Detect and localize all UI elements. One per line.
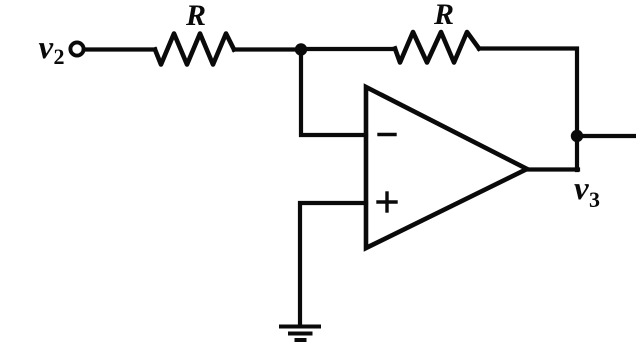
ground (281, 327, 319, 341)
wire op-amp output to node B riser (527, 167, 578, 171)
svg-text:3: 3 (589, 187, 600, 212)
wire R1 to node A (234, 47, 301, 51)
svg-text:R: R (185, 0, 206, 32)
node B output junction (571, 130, 583, 142)
wire v2 terminal to R1 (84, 47, 155, 51)
label v3 (574, 171, 600, 212)
wire node A down to inverting input (301, 50, 366, 136)
op-amp inverting pin minus sign (379, 133, 395, 136)
resistor R2 (395, 32, 479, 63)
wire node A to R2 (301, 47, 395, 51)
node v2 input terminal (70, 42, 83, 55)
op-amp noninverting pin plus sign (378, 193, 396, 211)
svg-text:v: v (574, 171, 589, 207)
wire output node B to right edge (577, 134, 636, 138)
wire noninverting input from ground riser (300, 203, 366, 325)
node A junction (295, 43, 307, 55)
label v2 (39, 30, 65, 69)
op-amp U1 (366, 87, 527, 248)
wire R2 to top-right corner and down to output junction (479, 49, 577, 171)
svg-text:v: v (39, 30, 54, 66)
svg-text:R: R (433, 0, 454, 31)
resistor R1 (155, 34, 234, 65)
svg-text:2: 2 (54, 44, 65, 69)
